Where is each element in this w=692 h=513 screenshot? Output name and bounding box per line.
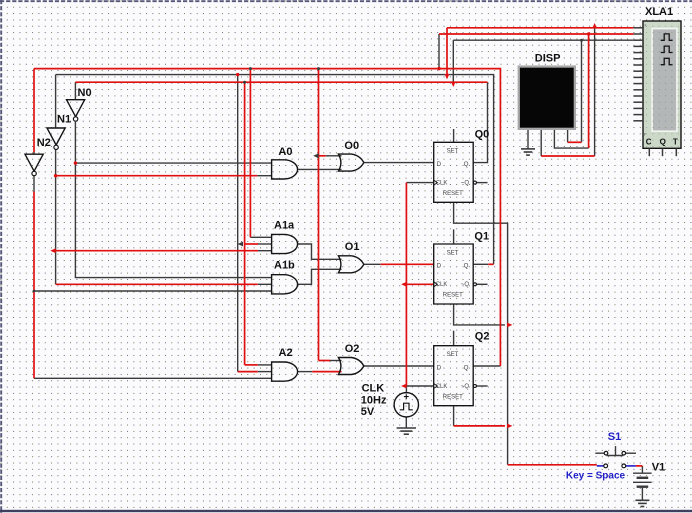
- svg-text:D: D: [437, 161, 442, 168]
- svg-text:10Hz: 10Hz: [361, 394, 387, 406]
- svg-text:CLK: CLK: [436, 180, 448, 186]
- svg-text:A1a: A1a: [274, 220, 295, 232]
- svg-text:O2: O2: [345, 343, 360, 355]
- svg-text:V1: V1: [652, 461, 665, 473]
- svg-text:Q: Q: [464, 263, 469, 270]
- svg-text:Q0: Q0: [475, 128, 490, 140]
- svg-text:Q: Q: [464, 364, 469, 371]
- svg-text:Key = Space: Key = Space: [566, 471, 626, 482]
- svg-text:F: F: [644, 132, 647, 137]
- svg-text:A0: A0: [278, 146, 292, 158]
- svg-text:D: D: [437, 364, 442, 371]
- svg-text:T: T: [673, 138, 678, 147]
- svg-text:O1: O1: [345, 241, 360, 253]
- svg-text:Q: Q: [660, 138, 666, 147]
- svg-text:SET: SET: [447, 250, 459, 256]
- svg-text:~Q: ~Q: [461, 180, 470, 186]
- svg-text:D: D: [437, 263, 442, 270]
- svg-text:S1: S1: [608, 431, 621, 443]
- svg-text:RESET: RESET: [443, 293, 463, 299]
- svg-text:CLK: CLK: [362, 382, 385, 394]
- svg-text:XLA1: XLA1: [645, 6, 673, 18]
- svg-text:A2: A2: [279, 347, 293, 359]
- svg-text:N0: N0: [78, 87, 92, 99]
- svg-text:N1: N1: [57, 114, 71, 126]
- svg-text:RESET: RESET: [443, 394, 463, 400]
- svg-text:SET: SET: [447, 352, 459, 358]
- svg-text:CLK: CLK: [436, 282, 448, 288]
- svg-text:A1b: A1b: [274, 260, 295, 272]
- svg-text:Q: Q: [464, 161, 469, 168]
- svg-text:Q2: Q2: [475, 330, 490, 342]
- svg-text:~Q: ~Q: [461, 384, 470, 390]
- svg-text:Q1: Q1: [474, 231, 489, 243]
- svg-text:~Q: ~Q: [461, 282, 470, 288]
- svg-text:N2: N2: [37, 137, 51, 149]
- svg-text:SET: SET: [447, 149, 459, 155]
- svg-text:O0: O0: [344, 140, 359, 152]
- svg-text:DISP: DISP: [535, 53, 561, 65]
- svg-text:5V: 5V: [361, 406, 375, 418]
- svg-text:C: C: [646, 138, 652, 147]
- svg-text:RESET: RESET: [443, 191, 463, 197]
- svg-text:CLK: CLK: [436, 384, 448, 390]
